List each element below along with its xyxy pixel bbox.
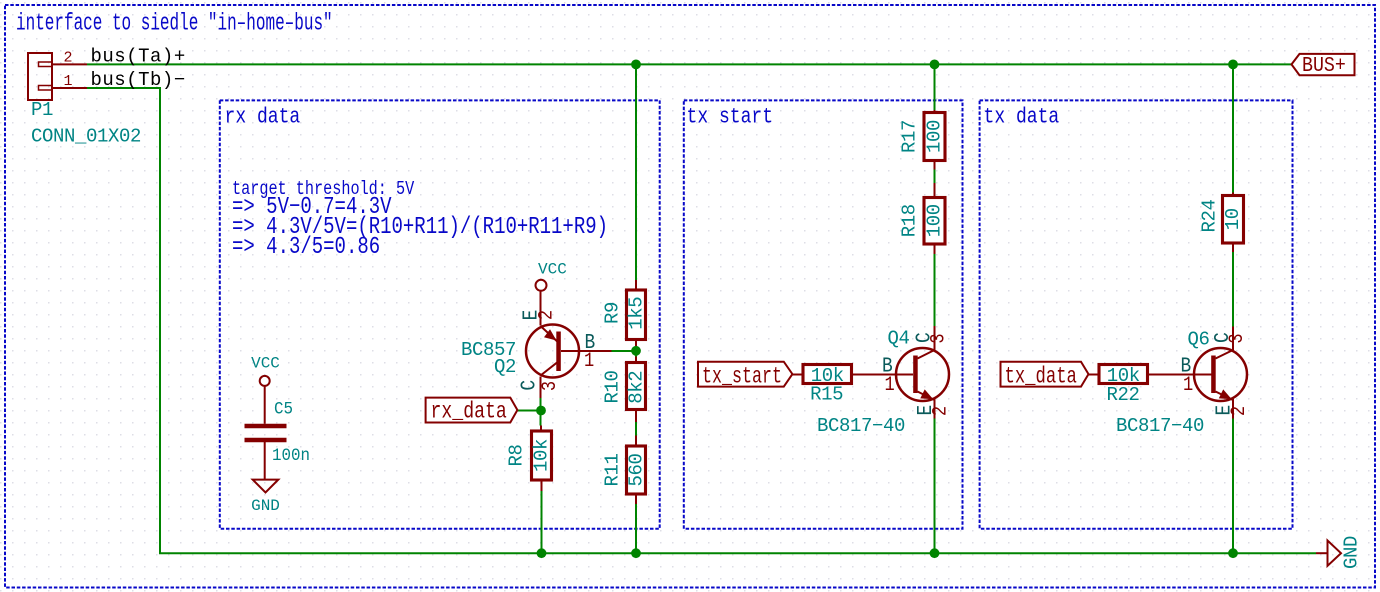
svg-text:8k2: 8k2 bbox=[626, 371, 648, 404]
svg-text:2: 2 bbox=[63, 50, 72, 67]
svg-text:3: 3 bbox=[927, 333, 950, 343]
svg-text:10k: 10k bbox=[531, 439, 553, 472]
svg-text:rx_data: rx_data bbox=[431, 400, 507, 426]
svg-text:R9: R9 bbox=[602, 302, 624, 324]
svg-text:R17: R17 bbox=[899, 120, 921, 153]
svg-text:10: 10 bbox=[1222, 208, 1244, 230]
svg-text:100: 100 bbox=[924, 120, 946, 153]
svg-text:1: 1 bbox=[63, 73, 72, 90]
svg-text:CONN_01X02: CONN_01X02 bbox=[31, 126, 141, 148]
svg-text:R22: R22 bbox=[1106, 384, 1139, 406]
svg-text:VCC: VCC bbox=[538, 261, 567, 279]
svg-text:100: 100 bbox=[924, 204, 946, 237]
svg-text:GND: GND bbox=[251, 497, 280, 515]
svg-text:R10: R10 bbox=[602, 370, 624, 403]
svg-text:GND: GND bbox=[1341, 536, 1363, 569]
svg-text:3: 3 bbox=[1226, 333, 1249, 343]
svg-text:Q2: Q2 bbox=[494, 356, 516, 378]
svg-text:C: C bbox=[517, 380, 541, 391]
svg-text:tx_data: tx_data bbox=[1005, 364, 1077, 390]
svg-text:Q4: Q4 bbox=[888, 328, 910, 350]
svg-text:BC817−40: BC817−40 bbox=[1116, 415, 1204, 437]
svg-text:2: 2 bbox=[929, 406, 952, 416]
svg-text:R8: R8 bbox=[506, 444, 528, 466]
svg-text:C5: C5 bbox=[274, 400, 293, 420]
svg-text:VCC: VCC bbox=[251, 354, 280, 372]
svg-text:R24: R24 bbox=[1199, 199, 1221, 232]
svg-text:rx data: rx data bbox=[225, 105, 301, 130]
svg-text:=> 4.3/5=0.86: => 4.3/5=0.86 bbox=[232, 234, 380, 261]
svg-text:R11: R11 bbox=[602, 453, 624, 486]
svg-text:bus(Tb)−: bus(Tb)− bbox=[91, 69, 186, 91]
svg-text:1k5: 1k5 bbox=[626, 297, 648, 330]
svg-text:tx start: tx start bbox=[687, 105, 774, 130]
svg-text:BUS+: BUS+ bbox=[1302, 52, 1346, 77]
svg-text:1: 1 bbox=[885, 374, 895, 397]
svg-text:bus(Ta)+: bus(Ta)+ bbox=[91, 46, 186, 68]
svg-text:2: 2 bbox=[535, 310, 558, 320]
svg-text:3: 3 bbox=[539, 381, 562, 391]
svg-text:BC817−40: BC817−40 bbox=[817, 415, 905, 437]
svg-text:R18: R18 bbox=[899, 204, 921, 237]
svg-text:2: 2 bbox=[1228, 406, 1251, 416]
svg-text:560: 560 bbox=[626, 453, 648, 486]
svg-text:P1: P1 bbox=[31, 99, 53, 121]
svg-text:tx data: tx data bbox=[984, 105, 1060, 130]
svg-text:1: 1 bbox=[584, 350, 594, 373]
svg-text:tx_start: tx_start bbox=[702, 364, 782, 390]
svg-text:100n: 100n bbox=[272, 446, 310, 466]
svg-text:1: 1 bbox=[1183, 374, 1193, 397]
svg-text:interface to siedle "in–home–b: interface to siedle "in–home–bus" bbox=[16, 11, 333, 38]
svg-text:Q6: Q6 bbox=[1188, 329, 1210, 351]
svg-text:R15: R15 bbox=[810, 384, 843, 406]
